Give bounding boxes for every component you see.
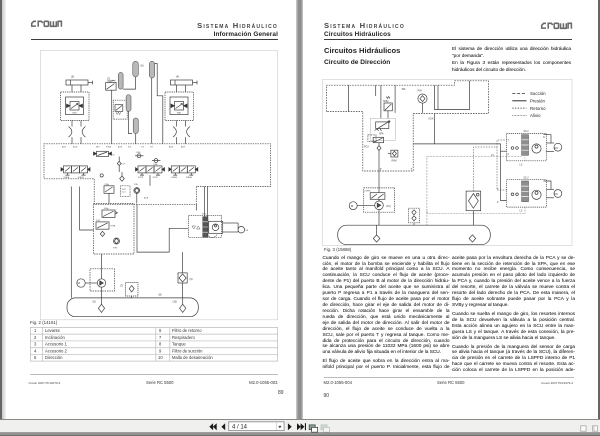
svg-text:P: P bbox=[508, 155, 510, 157]
svg-text:(4): (4) bbox=[176, 75, 179, 79]
svg-text:(P1): (P1) bbox=[386, 206, 391, 208]
svg-text:4: 4 bbox=[34, 348, 37, 353]
svg-text:SCU: SCU bbox=[524, 178, 529, 180]
svg-text:RVPA: RVPA bbox=[111, 225, 117, 228]
svg-text:(9): (9) bbox=[93, 300, 96, 304]
svg-text:Tanque: Tanque bbox=[172, 341, 186, 346]
svg-text:T: T bbox=[411, 167, 413, 171]
svg-text:SOL: SOL bbox=[128, 146, 132, 148]
svg-text:PCA: PCA bbox=[96, 219, 100, 222]
svg-text:RVA2: RVA2 bbox=[177, 112, 181, 115]
svg-text:10: 10 bbox=[158, 355, 163, 360]
svg-text:(8): (8) bbox=[159, 293, 162, 297]
svg-text:9: 9 bbox=[159, 348, 162, 353]
svg-text:Dirección: Dirección bbox=[45, 355, 63, 360]
svg-text:CVA1: CVA1 bbox=[136, 151, 141, 154]
svg-text:CVA2: CVA2 bbox=[153, 163, 158, 166]
svg-text:Malla de desaireación: Malla de desaireación bbox=[172, 355, 213, 360]
svg-text:SVA1A: SVA1A bbox=[64, 176, 70, 179]
svg-text:Filtro de retorno: Filtro de retorno bbox=[172, 328, 202, 333]
svg-text:(5): (5) bbox=[71, 75, 74, 79]
svg-text:A1/M: A1/M bbox=[73, 145, 78, 148]
svg-text:2: 2 bbox=[34, 334, 37, 339]
svg-text:PCA: PCA bbox=[364, 146, 369, 149]
svg-text:Respiradero: Respiradero bbox=[172, 334, 195, 339]
svg-text:SVA2A: SVA2A bbox=[186, 176, 192, 179]
svg-text:1: 1 bbox=[34, 328, 37, 333]
svg-text:Alivio: Alivio bbox=[530, 113, 541, 118]
svg-text:Filtro de succión: Filtro de succión bbox=[172, 348, 203, 353]
svg-text:6: 6 bbox=[159, 328, 162, 333]
svg-text:N: N bbox=[543, 137, 545, 139]
svg-text:7: 7 bbox=[159, 334, 162, 339]
svg-text:PVA: PVA bbox=[418, 90, 423, 93]
svg-text:SVA1B: SVA1B bbox=[78, 176, 84, 179]
svg-text:KOA: KOA bbox=[429, 117, 434, 120]
svg-text:LS: LS bbox=[520, 164, 523, 166]
svg-text:A2/B: A2/B bbox=[169, 145, 174, 148]
svg-text:SVBy: SVBy bbox=[105, 184, 110, 186]
svg-text:SPL: SPL bbox=[402, 89, 407, 91]
svg-text:5: 5 bbox=[34, 355, 37, 360]
svg-text:SCU: SCU bbox=[202, 214, 207, 216]
svg-text:4 / 14: 4 / 14 bbox=[232, 425, 248, 431]
svg-text:(10): (10) bbox=[173, 300, 178, 304]
svg-text:ShBp: ShBp bbox=[383, 101, 389, 103]
svg-text:T/R: T/R bbox=[150, 146, 154, 148]
svg-text:Accesorio 1: Accesorio 1 bbox=[45, 341, 68, 346]
svg-text:SPA: SPA bbox=[379, 132, 384, 135]
svg-text:M1: M1 bbox=[555, 193, 559, 196]
svg-text:Presión: Presión bbox=[530, 99, 545, 104]
svg-text:SVT/B: SVT/B bbox=[138, 177, 144, 179]
svg-text:Levante: Levante bbox=[45, 328, 61, 333]
svg-text:SVT/R: SVT/R bbox=[153, 177, 159, 179]
svg-text:A2/B: A2/B bbox=[118, 145, 123, 148]
svg-text:M: M bbox=[351, 204, 354, 208]
svg-text:Inclinación: Inclinación bbox=[45, 334, 65, 339]
svg-text:3: 3 bbox=[34, 341, 37, 346]
svg-text:RVLH: RVLH bbox=[110, 155, 115, 157]
svg-text:LSPFD: LSPFD bbox=[365, 191, 372, 193]
svg-text:RVM: RVM bbox=[392, 161, 397, 163]
svg-text:(7): (7) bbox=[107, 77, 110, 81]
svg-text:M1: M1 bbox=[246, 230, 250, 232]
svg-text:SVA2B: SVA2B bbox=[171, 176, 177, 179]
svg-text:A4/R: A4/R bbox=[181, 145, 186, 148]
svg-text:ShBp: ShBp bbox=[104, 208, 108, 210]
svg-text:PVA: PVA bbox=[134, 183, 138, 186]
svg-text:SCU: SCU bbox=[524, 131, 529, 133]
svg-text:T: T bbox=[508, 140, 510, 142]
svg-text:RVA1: RVA1 bbox=[72, 112, 76, 115]
svg-text:LS: LS bbox=[520, 211, 523, 213]
svg-text:(7): (7) bbox=[120, 284, 123, 288]
svg-text:LS: LS bbox=[491, 155, 494, 157]
svg-text:A5/A: A5/A bbox=[144, 197, 149, 200]
svg-text:8: 8 bbox=[159, 341, 162, 346]
svg-text:M1: M1 bbox=[555, 147, 559, 150]
svg-text:MP1: MP1 bbox=[96, 146, 100, 148]
svg-text:A1/B: A1/B bbox=[62, 145, 67, 148]
svg-text:Accesorio 2: Accesorio 2 bbox=[45, 348, 68, 353]
svg-text:(6): (6) bbox=[190, 277, 193, 281]
svg-text:P: P bbox=[497, 202, 499, 204]
svg-text:(6): (6) bbox=[141, 64, 144, 68]
svg-text:Retorno: Retorno bbox=[530, 106, 546, 111]
svg-text:LCF: LCF bbox=[122, 164, 126, 166]
svg-text:T/S: T/S bbox=[141, 146, 145, 148]
svg-text:P: P bbox=[380, 167, 382, 171]
svg-text:M: M bbox=[78, 281, 81, 285]
svg-text:PVM: PVM bbox=[113, 248, 117, 250]
svg-text:Succión: Succión bbox=[530, 91, 546, 96]
svg-text:2-10: 2-10 bbox=[122, 191, 126, 193]
svg-text:PVDA: PVDA bbox=[106, 145, 112, 148]
